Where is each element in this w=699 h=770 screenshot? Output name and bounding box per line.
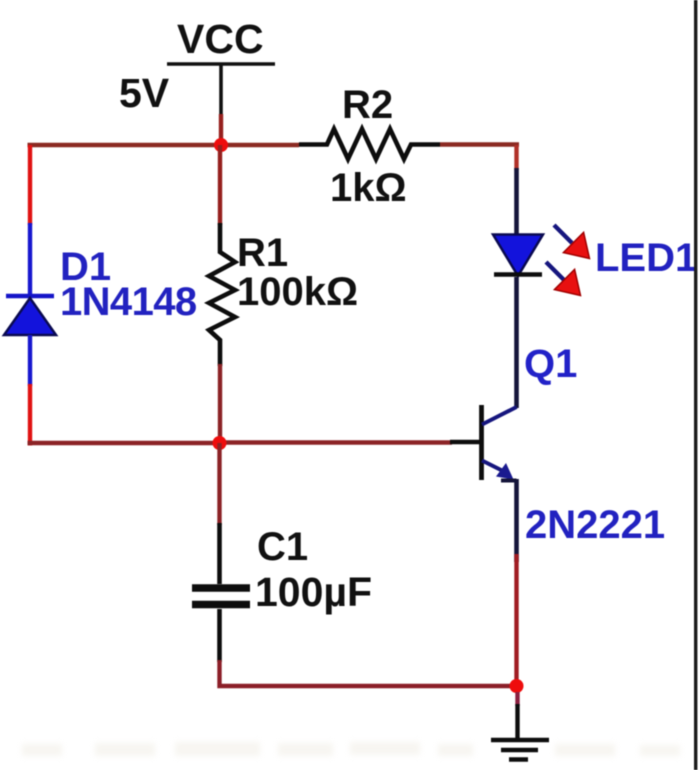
LED LED1 xyxy=(493,235,543,277)
diode D1 xyxy=(4,296,56,335)
svg-text:VCC: VCC xyxy=(177,16,264,62)
wire xyxy=(515,692,519,706)
node VCC junction xyxy=(214,138,228,152)
wire xyxy=(515,704,519,740)
wire xyxy=(28,143,222,147)
svg-text:5V: 5V xyxy=(119,70,170,116)
svg-text:100µF: 100µF xyxy=(255,569,372,615)
stray mark (right border line) xyxy=(694,0,697,770)
wire xyxy=(217,523,222,584)
svg-text:1N4148: 1N4148 xyxy=(60,280,197,324)
wire xyxy=(440,142,519,146)
wire xyxy=(514,554,518,686)
wire xyxy=(217,443,221,525)
wire xyxy=(28,384,32,446)
node ground junction xyxy=(510,679,524,693)
wire xyxy=(219,114,223,145)
svg-text:2N2221: 2N2221 xyxy=(525,503,665,547)
svg-text:LED1: LED1 xyxy=(595,236,697,280)
wire xyxy=(514,277,519,408)
LED light arrows xyxy=(546,225,590,296)
wire xyxy=(28,335,32,386)
resistor R2 xyxy=(299,129,440,159)
wire xyxy=(450,440,482,445)
node base junction xyxy=(213,436,227,450)
wire xyxy=(220,660,517,686)
wire xyxy=(28,145,32,225)
wire xyxy=(217,609,222,662)
wire xyxy=(218,364,222,443)
svg-text:C1: C1 xyxy=(257,525,308,569)
wire xyxy=(219,440,452,444)
svg-text:1kΩ: 1kΩ xyxy=(330,166,407,210)
svg-text:100kΩ: 100kΩ xyxy=(237,270,358,314)
wire xyxy=(514,168,519,238)
VCC power symbol xyxy=(167,64,275,116)
svg-text:R2: R2 xyxy=(342,83,393,127)
svg-text:R1: R1 xyxy=(237,231,288,275)
svg-text:Q1: Q1 xyxy=(524,342,577,386)
wire xyxy=(514,145,518,170)
ground xyxy=(491,740,549,760)
capacitor C1 xyxy=(192,588,250,605)
wire xyxy=(218,145,222,225)
wire xyxy=(221,143,299,147)
wire xyxy=(514,479,519,562)
wire xyxy=(28,441,220,445)
wire xyxy=(28,223,32,296)
transistor Q1 xyxy=(482,405,517,481)
faint artifact smudges xyxy=(22,742,680,756)
resistor R1 xyxy=(209,223,235,366)
